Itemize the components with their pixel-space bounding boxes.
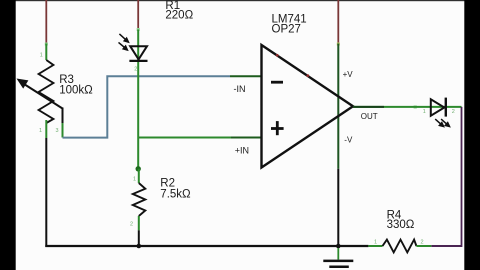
svg-text:OUT: OUT bbox=[361, 112, 378, 121]
svg-text:3: 3 bbox=[56, 128, 59, 134]
svg-text:1: 1 bbox=[40, 53, 43, 59]
svg-text:1: 1 bbox=[374, 240, 377, 246]
svg-text:+V: +V bbox=[343, 70, 354, 79]
svg-text:+IN: +IN bbox=[235, 145, 249, 155]
svg-text:-IN: -IN bbox=[234, 84, 246, 94]
svg-text:-V: -V bbox=[344, 135, 353, 144]
svg-text:100kΩ: 100kΩ bbox=[59, 84, 93, 96]
svg-text:2: 2 bbox=[134, 67, 137, 73]
svg-text:1: 1 bbox=[423, 109, 426, 115]
svg-text:2: 2 bbox=[130, 222, 133, 228]
svg-text:1: 1 bbox=[133, 177, 136, 183]
svg-text:OP27: OP27 bbox=[272, 24, 301, 36]
svg-text:1: 1 bbox=[39, 128, 42, 134]
svg-text:2: 2 bbox=[452, 109, 455, 115]
svg-text:2: 2 bbox=[421, 240, 424, 246]
svg-text:330Ω: 330Ω bbox=[387, 219, 415, 231]
svg-text:220Ω: 220Ω bbox=[165, 10, 193, 22]
svg-text:7.5kΩ: 7.5kΩ bbox=[160, 188, 191, 200]
